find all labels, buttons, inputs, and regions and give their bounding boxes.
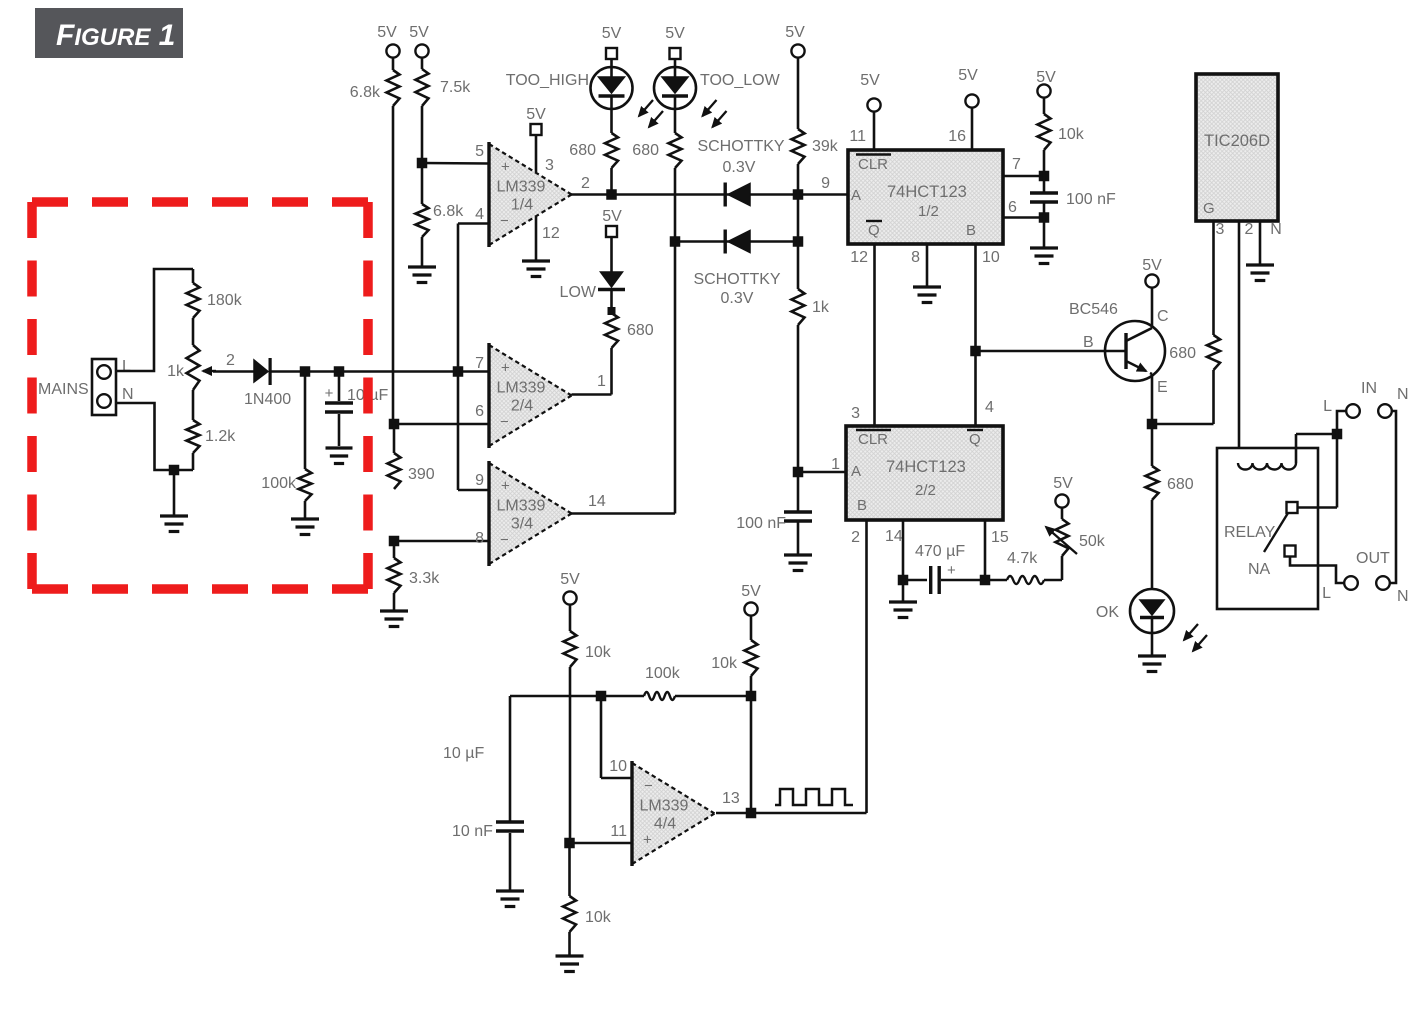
svg-text:5: 5	[475, 143, 484, 160]
svg-text:100 nF: 100 nF	[736, 515, 786, 532]
svg-text:4.7k: 4.7k	[1007, 550, 1038, 567]
svg-text:16: 16	[948, 128, 966, 145]
svg-text:4/4: 4/4	[654, 816, 676, 833]
svg-text:680: 680	[627, 322, 654, 339]
svg-text:Q: Q	[868, 222, 880, 239]
svg-text:SCHOTTKY: SCHOTTKY	[697, 138, 784, 155]
svg-text:3: 3	[545, 157, 554, 174]
svg-text:100k: 100k	[645, 665, 681, 682]
svg-text:10 nF: 10 nF	[452, 823, 493, 840]
svg-text:N: N	[122, 386, 134, 403]
svg-text:CLR: CLR	[858, 431, 888, 448]
svg-text:11: 11	[610, 823, 627, 840]
svg-text:14: 14	[885, 528, 903, 545]
svg-text:N: N	[1270, 221, 1282, 238]
svg-text:3: 3	[851, 405, 860, 422]
svg-text:4: 4	[985, 399, 994, 416]
svg-text:L: L	[1322, 585, 1331, 602]
svg-text:B: B	[1083, 334, 1094, 351]
svg-text:1: 1	[831, 456, 840, 473]
svg-text:12: 12	[542, 225, 560, 242]
svg-text:+: +	[501, 478, 510, 495]
svg-text:5V: 5V	[1053, 475, 1073, 492]
svg-text:6: 6	[475, 403, 484, 420]
svg-text:LOW: LOW	[560, 284, 597, 301]
svg-text:6.8k: 6.8k	[433, 203, 464, 220]
svg-text:2: 2	[1245, 221, 1254, 238]
svg-text:39k: 39k	[812, 138, 839, 155]
svg-text:5V: 5V	[602, 208, 622, 225]
svg-text:8: 8	[911, 249, 920, 266]
svg-text:10: 10	[609, 758, 627, 775]
svg-text:9: 9	[821, 175, 830, 192]
svg-text:50k: 50k	[1079, 533, 1106, 550]
svg-text:+: +	[947, 562, 956, 579]
svg-text:1/4: 1/4	[511, 197, 533, 214]
svg-text:FIGURE 1: FIGURE 1	[56, 19, 175, 52]
svg-text:OUT: OUT	[1356, 550, 1390, 567]
svg-text:2: 2	[581, 175, 590, 192]
svg-text:74HCT123: 74HCT123	[886, 458, 966, 476]
svg-text:14: 14	[588, 493, 606, 510]
svg-text:5V: 5V	[409, 24, 429, 41]
svg-text:+: +	[643, 832, 652, 849]
svg-text:2/2: 2/2	[915, 482, 936, 499]
svg-text:0.3V: 0.3V	[721, 290, 754, 307]
svg-text:1k: 1k	[812, 299, 830, 316]
svg-text:BC546: BC546	[1069, 301, 1118, 318]
svg-text:2/4: 2/4	[511, 398, 533, 415]
svg-text:LM339: LM339	[497, 380, 546, 397]
svg-text:10k: 10k	[1058, 126, 1085, 143]
svg-text:1N400: 1N400	[244, 391, 291, 408]
svg-text:+: +	[501, 360, 510, 377]
svg-text:−: −	[644, 778, 653, 795]
svg-text:L: L	[122, 358, 131, 375]
svg-text:10k: 10k	[711, 655, 738, 672]
svg-text:A: A	[851, 187, 861, 204]
svg-text:RELAY: RELAY	[1224, 524, 1276, 541]
svg-text:+: +	[501, 159, 510, 176]
svg-text:5V: 5V	[1036, 69, 1056, 86]
svg-text:5V: 5V	[1142, 257, 1162, 274]
svg-text:10 µF: 10 µF	[443, 745, 484, 762]
svg-text:A: A	[851, 463, 861, 480]
svg-text:10k: 10k	[585, 909, 612, 926]
svg-text:5V: 5V	[741, 583, 761, 600]
svg-text:1k: 1k	[167, 363, 185, 380]
svg-text:+: +	[325, 385, 334, 402]
svg-text:2: 2	[851, 529, 860, 546]
svg-text:5V: 5V	[958, 67, 978, 84]
svg-text:OK: OK	[1096, 604, 1119, 621]
svg-text:N: N	[1397, 588, 1409, 605]
svg-text:E: E	[1157, 379, 1168, 396]
svg-text:C: C	[1157, 308, 1169, 325]
svg-text:TIC206D: TIC206D	[1204, 132, 1270, 150]
svg-text:680: 680	[569, 142, 596, 159]
svg-text:680: 680	[1167, 476, 1194, 493]
svg-text:1/2: 1/2	[918, 203, 939, 220]
svg-text:−: −	[500, 532, 509, 549]
svg-text:4: 4	[475, 206, 484, 223]
svg-text:IN: IN	[1361, 380, 1377, 397]
svg-text:LM339: LM339	[497, 179, 546, 196]
svg-text:MAINS: MAINS	[38, 381, 89, 398]
svg-text:G: G	[1203, 200, 1215, 217]
svg-text:B: B	[857, 497, 867, 514]
svg-text:7.5k: 7.5k	[440, 79, 471, 96]
svg-text:CLR: CLR	[858, 156, 888, 173]
svg-text:SCHOTTKY: SCHOTTKY	[693, 271, 780, 288]
svg-text:3.3k: 3.3k	[409, 570, 440, 587]
svg-text:5V: 5V	[665, 25, 685, 42]
svg-text:5V: 5V	[785, 24, 805, 41]
svg-text:9: 9	[475, 472, 484, 489]
svg-text:0.3V: 0.3V	[723, 159, 756, 176]
svg-text:5V: 5V	[560, 571, 580, 588]
svg-text:5V: 5V	[602, 25, 622, 42]
svg-text:LM339: LM339	[497, 498, 546, 515]
svg-text:8: 8	[475, 530, 484, 547]
svg-text:TOO_HIGH: TOO_HIGH	[506, 72, 589, 89]
svg-text:470 µF: 470 µF	[915, 543, 965, 560]
svg-text:180k: 180k	[207, 292, 243, 309]
svg-text:7: 7	[1012, 156, 1021, 173]
svg-text:13: 13	[722, 790, 740, 807]
svg-text:Q: Q	[969, 431, 981, 448]
svg-text:5V: 5V	[377, 24, 397, 41]
svg-text:1.2k: 1.2k	[205, 428, 236, 445]
svg-text:6: 6	[1008, 199, 1017, 216]
svg-text:10: 10	[982, 249, 1000, 266]
svg-text:N: N	[1397, 386, 1409, 403]
svg-text:15: 15	[991, 529, 1009, 546]
svg-text:11: 11	[849, 128, 866, 145]
svg-text:LM339: LM339	[640, 798, 689, 815]
svg-text:−: −	[500, 414, 509, 431]
svg-text:NA: NA	[1248, 561, 1271, 578]
svg-text:10k: 10k	[585, 644, 612, 661]
svg-text:7: 7	[475, 355, 484, 372]
svg-text:5V: 5V	[860, 72, 880, 89]
svg-text:100 nF: 100 nF	[1066, 191, 1116, 208]
svg-text:B: B	[966, 222, 976, 239]
svg-text:390: 390	[408, 466, 435, 483]
svg-text:3/4: 3/4	[511, 516, 533, 533]
svg-text:680: 680	[1169, 345, 1196, 362]
svg-text:L: L	[1323, 398, 1332, 415]
svg-text:6.8k: 6.8k	[350, 84, 381, 101]
svg-text:3: 3	[1216, 221, 1225, 238]
svg-text:2: 2	[226, 352, 235, 369]
svg-text:1: 1	[597, 373, 606, 390]
svg-text:74HCT123: 74HCT123	[887, 183, 967, 201]
svg-text:680: 680	[632, 142, 659, 159]
svg-text:−: −	[500, 213, 509, 230]
svg-text:100k: 100k	[261, 475, 297, 492]
svg-text:12: 12	[850, 249, 868, 266]
svg-text:TOO_LOW: TOO_LOW	[700, 72, 781, 89]
svg-text:5V: 5V	[526, 106, 546, 123]
